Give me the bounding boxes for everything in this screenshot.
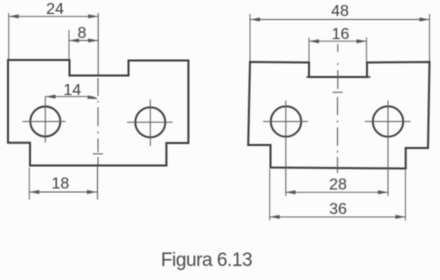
left view: dimension line 14 bbox=[46, 95, 98, 100]
right view: extension line for 48 (left) bbox=[249, 14, 251, 61]
right view: hole left circle bbox=[271, 106, 301, 136]
right view: centerline tick mark bbox=[333, 91, 343, 93]
svg-text:48: 48 bbox=[331, 3, 349, 20]
right view: dimension line 48 bbox=[250, 18, 430, 22]
left view: hole left circle bbox=[30, 107, 60, 137]
svg-text:28: 28 bbox=[329, 177, 347, 194]
right view: dimension line 28 bbox=[286, 190, 389, 194]
right view: notch bottom overshoot stroke bbox=[307, 76, 371, 78]
svg-text:24: 24 bbox=[46, 1, 64, 18]
svg-text:18: 18 bbox=[52, 176, 70, 193]
left view: dimension line 18 bbox=[29, 190, 97, 194]
right view: hole right circle bbox=[373, 106, 403, 136]
right view: hole right center cross bbox=[365, 101, 411, 197]
svg-text:14: 14 bbox=[63, 82, 81, 99]
left view: extension line for 8 (left) bbox=[68, 30, 70, 59]
left view: vertical centerline (dash-dot) bbox=[97, 13, 100, 200]
svg-text:36: 36 bbox=[329, 201, 347, 218]
left view: part outline bbox=[8, 60, 188, 166]
left view: dimension line 8 bbox=[69, 39, 98, 43]
right view: dimension line 36 bbox=[270, 215, 406, 219]
svg-text:Figura 6.13: Figura 6.13 bbox=[161, 250, 252, 271]
left view: extension line for 24 (left) bbox=[8, 13, 10, 59]
left view: dimension line 24 bbox=[9, 14, 99, 18]
left view: hole left center cross bbox=[23, 96, 66, 142]
left view: centerline tick mark bbox=[93, 153, 103, 155]
right view: extension line for 16 (right) bbox=[366, 38, 368, 62]
right view: part outline bbox=[248, 62, 429, 169]
right view: vertical centerline (dash-dot) bbox=[337, 44, 339, 173]
right view: extension line for 36 (left) bbox=[269, 169, 271, 221]
right view: dimension line 16 bbox=[309, 39, 367, 43]
svg-text:16: 16 bbox=[332, 26, 350, 43]
left view: hole right center cross bbox=[127, 100, 173, 147]
right view: extension line for 48 (right) bbox=[429, 14, 431, 61]
right view: extension line for 36 (right) bbox=[404, 170, 406, 221]
left view: extension line for 18 (left) bbox=[28, 168, 30, 200]
right view: extension line for 16 (left) bbox=[308, 38, 310, 62]
right view: hole left center cross bbox=[263, 101, 308, 197]
left view: hole right circle bbox=[135, 107, 165, 137]
svg-text:8: 8 bbox=[78, 25, 87, 42]
